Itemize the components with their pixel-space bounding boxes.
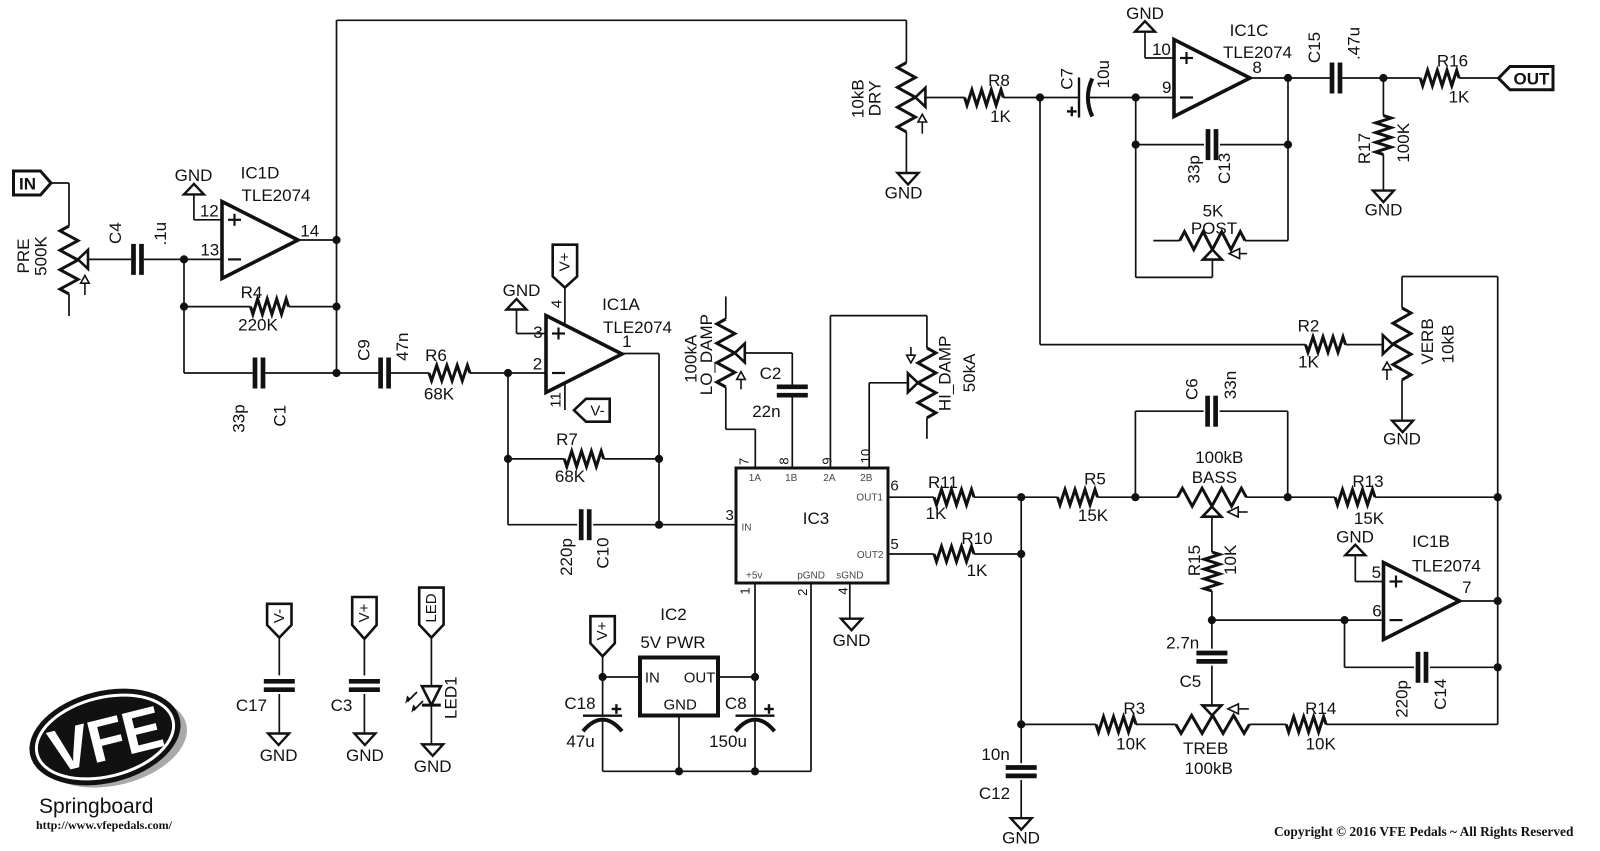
capacitor C8 150u [709, 677, 774, 771]
ground GND (IC1B pin 5) [1336, 528, 1383, 582]
voltage regulator IC2 5V PWR [640, 605, 718, 716]
svg-text:R3: R3 [1123, 699, 1145, 718]
svg-text:GND: GND [414, 757, 452, 776]
svg-text:V+: V+ [556, 252, 573, 271]
power flag V+ (IC1A pin 4) [553, 245, 577, 326]
wire [336, 20, 338, 373]
resistor R8 1K [965, 71, 1012, 126]
node [1284, 493, 1292, 501]
pin 11 label [548, 392, 565, 408]
svg-text:R16: R16 [1437, 52, 1468, 71]
node [1131, 493, 1139, 501]
wire [337, 19, 907, 21]
wire [1098, 496, 1178, 498]
resistor R7 68K [508, 430, 659, 486]
pin 9 label [820, 457, 835, 464]
wire [1402, 277, 1498, 725]
svg-text:OUT2: OUT2 [857, 550, 884, 561]
pin 6 label [1372, 602, 1381, 621]
pin 1 label [737, 587, 752, 594]
wire [726, 387, 756, 468]
svg-text:IC1A: IC1A [602, 295, 640, 314]
svg-text:V+: V+ [356, 603, 373, 622]
wire [1375, 496, 1498, 498]
svg-text:TREB: TREB [1183, 739, 1228, 758]
ground GND (DRY) [885, 173, 923, 203]
svg-text:33p: 33p [229, 404, 248, 432]
resistor R13 15K [1335, 472, 1385, 528]
wire [1136, 723, 1176, 725]
svg-text:TLE2074: TLE2074 [603, 318, 672, 337]
svg-text:C9: C9 [355, 339, 374, 361]
node [1494, 493, 1502, 501]
wire [869, 383, 908, 468]
capacitor C4 .1u [106, 222, 170, 275]
wire [1021, 723, 1096, 725]
svg-text:IN: IN [742, 523, 752, 534]
wire [1040, 98, 1306, 345]
svg-text:R11: R11 [928, 473, 958, 492]
capacitor C1 33p [184, 358, 337, 433]
svg-text:POST: POST [1191, 219, 1237, 238]
svg-text:GND: GND [833, 631, 871, 650]
wire [1246, 496, 1335, 498]
svg-text:68K: 68K [424, 385, 455, 404]
wire [508, 373, 577, 525]
svg-text:TLE2074: TLE2074 [1412, 557, 1481, 576]
potentiometer PRE 500K [14, 226, 89, 295]
svg-text:C7: C7 [1057, 68, 1076, 90]
svg-text:22n: 22n [752, 402, 780, 421]
pin 8 label [777, 457, 792, 464]
svg-text:10u: 10u [1094, 60, 1113, 88]
wire [1287, 78, 1289, 241]
capacitor C9 47n [355, 333, 413, 389]
svg-text:C17: C17 [236, 696, 267, 715]
svg-text:LED1: LED1 [441, 676, 460, 719]
node [1494, 597, 1502, 605]
ground GND (C12) [1002, 818, 1040, 847]
pin 5 label [1372, 563, 1381, 582]
svg-text:4: 4 [549, 300, 566, 308]
node [1208, 616, 1216, 624]
svg-text:500K: 500K [31, 235, 50, 275]
wire [603, 676, 640, 678]
potentiometer POST 5K [1153, 202, 1288, 260]
svg-text:15K: 15K [1354, 509, 1385, 528]
svg-text:R14: R14 [1305, 699, 1336, 718]
svg-text:2: 2 [795, 589, 810, 596]
op-amp IC1C TLE2074 [1174, 21, 1292, 117]
svg-text:14: 14 [300, 222, 319, 241]
resistor R4 220K [184, 283, 337, 335]
svg-text:1: 1 [622, 332, 631, 351]
wire [1136, 260, 1213, 278]
ground GND (IC3 sGND) [833, 583, 871, 650]
LED LED1 [405, 676, 460, 744]
ground GND (LED1) [414, 744, 452, 776]
svg-text:GND: GND [885, 184, 923, 203]
node [1284, 74, 1292, 82]
svg-text:IC3: IC3 [803, 509, 829, 528]
wire [391, 372, 429, 374]
svg-text:GND: GND [503, 281, 541, 300]
svg-text:TLE2074: TLE2074 [242, 186, 311, 205]
power flag V+ (IC2) [590, 616, 614, 677]
resistor R11 1K [888, 473, 1058, 523]
svg-text:C12: C12 [979, 784, 1010, 803]
svg-text:1K: 1K [967, 561, 988, 580]
wire [905, 20, 907, 62]
svg-text:LO_DAMP: LO_DAMP [697, 314, 716, 395]
wire [678, 716, 680, 772]
svg-text:Copyright © 2016 VFE Pedals ~: Copyright © 2016 VFE Pedals ~ All Rights… [1274, 824, 1574, 839]
svg-text:47u: 47u [566, 732, 594, 751]
wire [926, 418, 928, 439]
node [1017, 720, 1025, 728]
wire [337, 372, 379, 374]
svg-text:10: 10 [1152, 40, 1171, 59]
svg-text:1B: 1B [785, 473, 798, 484]
svg-text:Springboard: Springboard [39, 795, 153, 818]
ground GND (IC1A pin 3) [503, 281, 546, 334]
pin 10 label [1152, 40, 1171, 59]
svg-text:2B: 2B [860, 473, 873, 484]
pin 8 label [1252, 58, 1261, 77]
pin 6 label [890, 478, 898, 495]
svg-text:R4: R4 [241, 283, 263, 302]
wire [1250, 77, 1330, 79]
svg-text:1: 1 [737, 587, 752, 594]
svg-text:C3: C3 [331, 696, 353, 715]
capacitor C6 33n [1135, 371, 1287, 497]
potentiometer DRY 10kB [848, 63, 926, 134]
pin 2 label [533, 355, 542, 374]
svg-text:GND: GND [1002, 829, 1040, 848]
svg-text:GND: GND [1336, 528, 1374, 547]
svg-text:GND: GND [1365, 201, 1403, 220]
wire [1460, 600, 1498, 602]
svg-text:DRY: DRY [865, 81, 884, 117]
power flag V- (IC1A pin 11) [565, 382, 610, 422]
node [751, 673, 759, 681]
wire [68, 294, 70, 316]
svg-text:R6: R6 [425, 346, 447, 365]
capacitor C14 220p [1345, 620, 1498, 718]
svg-text:V+: V+ [594, 621, 611, 640]
svg-text:GND: GND [664, 697, 698, 714]
svg-text:C1: C1 [271, 405, 290, 427]
pin 12 label [200, 202, 219, 221]
capacitor C2 22n [752, 364, 808, 421]
capacitor C15 .47u [1305, 27, 1364, 94]
svg-text:GND: GND [346, 746, 384, 765]
resistor R16 1K [1420, 52, 1470, 107]
svg-text:50kA: 50kA [960, 353, 979, 392]
wire [1401, 380, 1403, 421]
pin 13 label [200, 241, 219, 260]
node [504, 369, 512, 377]
pin 7 label [1462, 578, 1471, 597]
pin 3 label [726, 507, 734, 524]
svg-text:http://www.vfepedals.com/: http://www.vfepedals.com/ [36, 818, 173, 832]
node [1036, 93, 1044, 101]
pin 10 label [858, 449, 873, 463]
wire [1346, 344, 1383, 346]
node [332, 369, 340, 377]
resistor R2 1K [1298, 317, 1346, 372]
ground GND (VERB) [1383, 421, 1421, 449]
node [1494, 663, 1502, 671]
svg-text:C6: C6 [1182, 378, 1201, 400]
wire [924, 97, 964, 99]
wire [87, 258, 131, 260]
svg-text:R7: R7 [556, 430, 578, 449]
svg-text:10: 10 [858, 449, 873, 463]
pin 5 label [890, 536, 898, 553]
svg-text:R17: R17 [1355, 133, 1374, 164]
svg-text:3: 3 [726, 507, 734, 524]
svg-text:33n: 33n [1221, 371, 1240, 399]
ground GND (IC1D pin 12) [175, 166, 222, 220]
wire [144, 258, 222, 260]
svg-text:5: 5 [1372, 563, 1381, 582]
node [1340, 616, 1348, 624]
wire [51, 183, 69, 226]
wire [1020, 497, 1022, 724]
node [655, 521, 663, 529]
svg-text:BASS: BASS [1192, 468, 1237, 487]
svg-text:LED: LED [423, 593, 440, 622]
node [1132, 141, 1140, 149]
Springboard title [39, 795, 153, 818]
svg-text:OUT: OUT [1514, 70, 1551, 89]
node [180, 303, 188, 311]
potentiometer BASS 100kB [1178, 448, 1248, 517]
wire [1342, 77, 1420, 79]
pin 4 label [836, 587, 851, 594]
svg-text:6: 6 [890, 478, 898, 495]
svg-text:R8: R8 [988, 71, 1010, 90]
node [1017, 550, 1025, 558]
svg-text:IC1C: IC1C [1230, 21, 1269, 40]
ground GND (C3) [346, 734, 384, 766]
capacitor C7 10u [1057, 60, 1113, 117]
wire [1459, 77, 1498, 79]
capacitor C3 [331, 681, 380, 733]
resistor R5 15K [1058, 470, 1109, 526]
svg-text:1K: 1K [990, 107, 1011, 126]
wire [1088, 97, 1174, 99]
wire [718, 676, 755, 678]
svg-text:9: 9 [820, 457, 835, 464]
node [599, 673, 607, 681]
svg-text:C15: C15 [1305, 32, 1324, 63]
svg-text:7: 7 [1462, 578, 1471, 597]
resistor R3 10K [1096, 699, 1147, 754]
wire [905, 132, 907, 173]
svg-text:3: 3 [533, 323, 542, 342]
svg-text:12: 12 [200, 202, 219, 221]
pin 9 label [1162, 78, 1171, 97]
op-amp IC1A TLE2074 [546, 295, 672, 393]
svg-text:GND: GND [260, 746, 298, 765]
wire [593, 524, 736, 526]
svg-text:C13: C13 [1215, 153, 1234, 184]
wire [791, 395, 793, 468]
svg-text:2: 2 [533, 355, 542, 374]
svg-text:OUT: OUT [684, 670, 716, 687]
svg-text:11: 11 [548, 392, 565, 408]
resistor R10 1K [888, 529, 1021, 580]
svg-text:8: 8 [777, 457, 792, 464]
pin 4 label [549, 300, 566, 308]
svg-text:4: 4 [836, 587, 851, 594]
node [1017, 493, 1025, 501]
power flag V- (C17) [267, 604, 291, 676]
wire [1003, 97, 1079, 99]
potentiometer LO_DAMP 100kA [682, 296, 746, 395]
node [504, 455, 512, 463]
svg-text:C5: C5 [1180, 672, 1202, 691]
svg-text:10K: 10K [1116, 735, 1147, 754]
svg-text:100kB: 100kB [1195, 448, 1243, 467]
svg-text:.47u: .47u [1345, 27, 1364, 60]
svg-text:9: 9 [1162, 78, 1171, 97]
capacitor C12 10n [979, 724, 1037, 818]
wire [470, 372, 546, 374]
wire [1135, 98, 1137, 278]
svg-text:IC1D: IC1D [241, 164, 280, 183]
svg-text:68K: 68K [555, 467, 586, 486]
svg-text:IN: IN [645, 670, 660, 687]
svg-text:pGND: pGND [797, 571, 825, 582]
svg-text:5V PWR: 5V PWR [640, 633, 705, 652]
op-amp IC1D TLE2074 [222, 164, 311, 279]
VFE logo [19, 673, 197, 805]
svg-text:10n: 10n [981, 745, 1009, 764]
potentiometer TREB 100kB [1176, 704, 1250, 778]
ground GND (IC1C pin 10) [1126, 4, 1174, 58]
wire [1249, 723, 1286, 725]
svg-text:10K: 10K [1221, 544, 1240, 575]
svg-text:GND: GND [1126, 4, 1164, 23]
potentiometer VERB 10kB [1383, 277, 1458, 381]
potentiometer HI_DAMP 50kA [907, 336, 979, 418]
svg-text:OUT1: OUT1 [856, 493, 883, 504]
pin 14 label [300, 222, 319, 241]
resistor R14 10K [1286, 699, 1336, 754]
wire [1326, 723, 1498, 725]
copyright notice [1274, 824, 1574, 839]
svg-text:1K: 1K [1449, 88, 1470, 107]
svg-text:220p: 220p [1393, 680, 1412, 718]
IC U3 (IC3 reverb chip) [736, 468, 888, 583]
svg-text:10kB: 10kB [1439, 325, 1458, 364]
svg-text:sGND: sGND [836, 571, 863, 582]
svg-text:R13: R13 [1352, 472, 1383, 491]
svg-text:C18: C18 [564, 694, 595, 713]
wire [622, 354, 659, 526]
svg-text:6: 6 [1372, 602, 1381, 621]
svg-text:R2: R2 [1298, 317, 1320, 336]
wire [830, 316, 927, 468]
wire [744, 353, 793, 387]
capacitor C10 220p [557, 509, 612, 576]
svg-text:IN: IN [19, 175, 36, 194]
resistor R15 10K [1185, 517, 1240, 620]
svg-text:220p: 220p [557, 538, 576, 576]
node [332, 303, 340, 311]
svg-text:100K: 100K [1394, 122, 1413, 162]
output connector OUT [1499, 67, 1554, 90]
svg-text:2A: 2A [823, 473, 836, 484]
wire [298, 239, 337, 241]
wire [183, 259, 185, 373]
pin 1 label [622, 332, 631, 351]
svg-text:1K: 1K [1298, 353, 1319, 372]
svg-text:8: 8 [1252, 58, 1261, 77]
resistor R17 100K [1355, 78, 1413, 191]
svg-text:C2: C2 [760, 364, 782, 383]
node [332, 236, 340, 244]
capacitor C5 2.7n [1166, 620, 1227, 706]
pin 7 label [737, 458, 752, 465]
svg-text:220K: 220K [238, 316, 278, 335]
svg-text:15K: 15K [1078, 506, 1109, 525]
node [655, 455, 663, 463]
svg-text:GND: GND [1383, 430, 1421, 449]
svg-text:R5: R5 [1084, 470, 1106, 489]
node [1132, 93, 1140, 101]
svg-text:5K: 5K [1203, 202, 1224, 221]
svg-text:C14: C14 [1431, 679, 1450, 710]
node [751, 767, 759, 775]
pin 2 label [795, 589, 810, 596]
svg-text:2.7n: 2.7n [1166, 634, 1199, 653]
svg-text:5: 5 [890, 536, 898, 553]
svg-text:R10: R10 [961, 529, 992, 548]
svg-text:33p: 33p [1184, 155, 1203, 183]
svg-text:13: 13 [200, 241, 219, 260]
svg-text:1A: 1A [749, 473, 762, 484]
capacitor C18 47u [564, 677, 622, 771]
pin 3 label [533, 323, 542, 342]
wire [603, 583, 811, 771]
wire [754, 583, 756, 677]
ground GND (C17) [260, 734, 298, 766]
wire [1212, 619, 1384, 621]
svg-text:100kB: 100kB [1185, 759, 1233, 778]
svg-text:1K: 1K [926, 504, 947, 523]
svg-text:150u: 150u [709, 732, 747, 751]
svg-text:47n: 47n [393, 333, 412, 361]
svg-text:10K: 10K [1306, 735, 1337, 754]
svg-text:V-: V- [590, 403, 604, 420]
svg-text:C8: C8 [725, 694, 747, 713]
node [180, 255, 188, 263]
op-amp IC1B TLE2074 [1384, 532, 1481, 640]
website url [36, 818, 173, 832]
node [1379, 74, 1387, 82]
svg-text:+5v: +5v [746, 571, 762, 582]
power flag V+ (C3) [352, 597, 376, 675]
svg-text:VERB: VERB [1418, 318, 1437, 364]
svg-text:HI_DAMP: HI_DAMP [936, 336, 955, 412]
capacitor C13 33p [1136, 129, 1288, 184]
svg-text:IC2: IC2 [660, 605, 686, 624]
svg-text:R15: R15 [1185, 545, 1204, 576]
